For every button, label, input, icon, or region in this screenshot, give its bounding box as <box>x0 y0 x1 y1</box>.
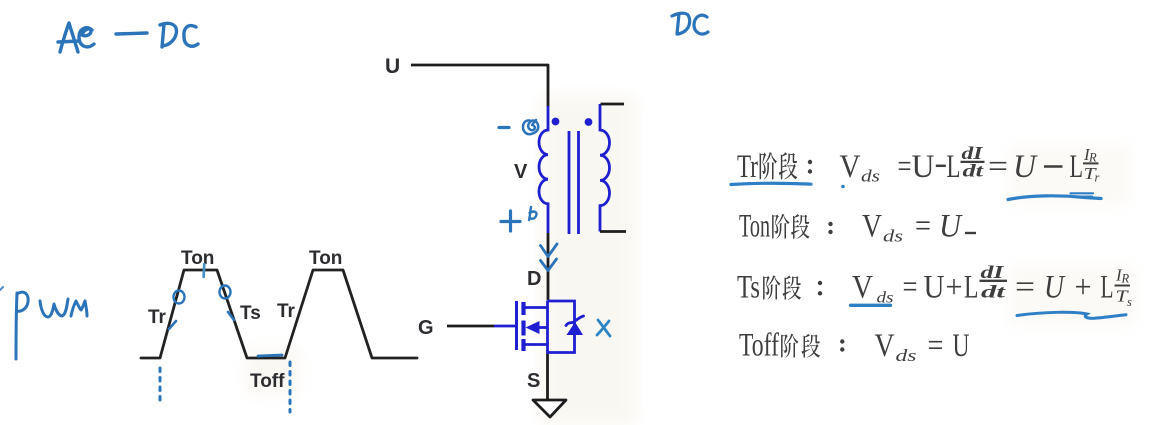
transformer T1 primary winding <box>539 106 548 233</box>
svg-text:=: = <box>928 328 944 364</box>
wire gate black segment <box>447 325 494 328</box>
svg-text:V: V <box>862 209 882 245</box>
svg-text:L: L <box>964 270 979 306</box>
wire from U to transformer primary <box>411 65 548 107</box>
wire transformer to MOSFET drain <box>547 233 550 300</box>
svg-text:+: + <box>1075 270 1092 306</box>
svg-text:Ts: Ts <box>240 303 261 324</box>
svg-text:U: U <box>385 55 400 78</box>
svg-text:U: U <box>924 270 945 306</box>
svg-text:R: R <box>1121 272 1130 286</box>
annotation handwriting "Ac - DC" top left <box>58 23 198 52</box>
wire source to ground <box>546 354 549 400</box>
svg-text:=: = <box>903 270 918 306</box>
svg-text:Toff: Toff <box>250 371 285 392</box>
PWM waveform trace <box>141 270 417 358</box>
svg-text:dt: dt <box>963 161 985 181</box>
svg-text:U: U <box>953 328 970 364</box>
annotation underline below Vds line3 <box>851 304 891 307</box>
annotation tick on falling slope <box>228 312 234 320</box>
body diode D1 cathode squiggle <box>566 316 584 326</box>
svg-text:=: = <box>898 149 912 185</box>
svg-text:Ton: Ton <box>181 248 214 269</box>
svg-text:U: U <box>1044 270 1066 306</box>
svg-text:dI: dI <box>981 262 1005 282</box>
annotation minus polarity <box>499 126 509 129</box>
wire secondary top lead <box>601 103 625 106</box>
svg-text:U: U <box>1013 149 1038 185</box>
annotation current direction chevrons <box>541 244 558 271</box>
svg-text:r: r <box>1095 171 1100 185</box>
annotation loop on falling slope <box>220 286 231 299</box>
svg-text:ds: ds <box>896 346 918 365</box>
svg-text:D: D <box>527 268 541 290</box>
annotation X mark <box>597 320 610 336</box>
annotation dot below Vds line1 <box>841 185 845 189</box>
MOSFET Q1 channel segments <box>521 302 525 351</box>
svg-text:Tr: Tr <box>737 149 758 185</box>
transformer T1 core <box>569 131 579 234</box>
annotation wavy underline line1 result <box>1008 196 1101 200</box>
svg-text:L: L <box>1070 149 1084 185</box>
svg-text:V: V <box>840 149 861 185</box>
transformer polarity dot primary <box>552 118 560 126</box>
wire gate blue segment <box>494 325 516 328</box>
svg-text:Ton: Ton <box>739 209 770 245</box>
annotation mark on baseline near Toff <box>258 355 282 356</box>
annotation wavy underline line3 result <box>1017 312 1126 318</box>
svg-text:dt: dt <box>981 282 1007 302</box>
svg-text:G: G <box>418 317 434 339</box>
annotation dashed vertical line 1 <box>159 368 162 401</box>
svg-text:Ts: Ts <box>737 270 760 306</box>
annotation underline below Tr stage <box>731 183 811 184</box>
annotation tick at first plateau <box>202 264 205 277</box>
MOSFET Q1 vertical bus <box>546 301 549 355</box>
svg-text:V: V <box>875 328 895 364</box>
body diode D1 triangle <box>567 322 584 335</box>
svg-text:L: L <box>1101 270 1114 306</box>
MOSFET Q1 body connection with arrow <box>538 326 548 329</box>
svg-text:s: s <box>1127 295 1132 309</box>
annotation stray mark at left edge <box>0 287 3 291</box>
svg-text:U: U <box>912 149 935 185</box>
annotation dashed vertical line 2 <box>289 362 292 412</box>
svg-text:ds: ds <box>861 167 880 186</box>
MOSFET Q1 gate bar <box>515 301 518 350</box>
annotation handwriting "DC" top right <box>672 13 708 34</box>
MOSFET Q1 body-diode loop <box>548 301 575 353</box>
svg-text:=: = <box>988 149 1008 185</box>
MOSFET Q1 source connection <box>524 343 548 346</box>
svg-text:=: = <box>1015 270 1035 306</box>
annotation short double line under Tr fraction <box>1071 193 1094 196</box>
svg-text:Toff: Toff <box>739 328 779 364</box>
svg-text:L: L <box>947 149 961 185</box>
svg-text:ds: ds <box>883 227 903 246</box>
annotation scribble near minus <box>523 120 538 134</box>
svg-text:Ton: Ton <box>309 248 342 269</box>
svg-text:U: U <box>939 209 963 245</box>
annotation handwriting "PWM" <box>16 292 87 359</box>
ground symbol <box>533 400 566 417</box>
wire secondary bottom lead <box>600 230 626 233</box>
transformer polarity dot secondary <box>585 118 593 126</box>
transformer T1 secondary winding <box>600 104 610 232</box>
svg-text:Tr: Tr <box>277 301 296 322</box>
annotation loop on rising slope <box>174 291 185 304</box>
annotation b scribble near plus <box>529 207 537 220</box>
svg-text:Tr: Tr <box>148 307 167 328</box>
svg-text:=: = <box>915 209 931 245</box>
annotation tick on rising slope <box>169 321 176 329</box>
MOSFET Q1 drain connection <box>524 306 548 309</box>
svg-text:V: V <box>514 161 528 183</box>
annotation plus polarity <box>501 211 520 231</box>
svg-text:V: V <box>852 270 873 306</box>
svg-text:+: + <box>946 270 963 306</box>
svg-text:S: S <box>527 370 540 392</box>
